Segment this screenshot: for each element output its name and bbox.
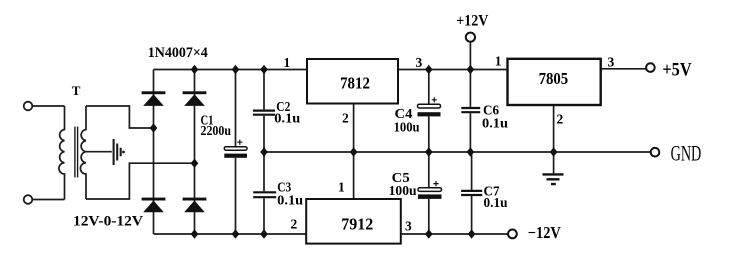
svg-text:1: 1 bbox=[338, 179, 345, 194]
dot center tap earth bbox=[122, 151, 125, 154]
capacitor C3 plates bbox=[253, 192, 276, 197]
svg-text:7812: 7812 bbox=[340, 74, 370, 93]
svg-text:7805: 7805 bbox=[539, 69, 569, 88]
regulator U1 7812 box bbox=[307, 59, 398, 104]
capacitor C7 plates bbox=[461, 191, 482, 195]
wire primary bottom bbox=[32, 199, 64, 201]
junction dots top rail bbox=[191, 65, 475, 74]
regulator U3 7805 box bbox=[508, 59, 601, 105]
diode D2 bridge right top bbox=[183, 91, 207, 106]
wire center tap bbox=[86, 151, 112, 153]
svg-text:1N4007×4: 1N4007×4 bbox=[148, 45, 208, 61]
svg-text:0.1u: 0.1u bbox=[484, 195, 508, 210]
wire top rail middle bbox=[398, 69, 508, 71]
capacitor C1 electrolytic plates bbox=[224, 140, 247, 158]
wire primary top bbox=[32, 105, 64, 107]
transformer T primary winding bbox=[59, 106, 65, 200]
wire C4 branch bbox=[428, 70, 430, 153]
ground symbol under 7805 bbox=[543, 174, 564, 184]
svg-text:0.1u: 0.1u bbox=[277, 193, 304, 208]
capacitor C2 plates bbox=[253, 111, 275, 115]
svg-text:GND: GND bbox=[671, 141, 702, 166]
diode D1 bridge left top bbox=[142, 91, 166, 106]
svg-text:3: 3 bbox=[405, 218, 412, 233]
wire C7 branch bbox=[471, 152, 473, 234]
terminal +12V circle bbox=[466, 33, 475, 42]
wire C1 branch bbox=[235, 70, 237, 235]
junction dots bottom rail bbox=[191, 229, 476, 238]
ground symbol stub bbox=[553, 152, 555, 173]
svg-text:3: 3 bbox=[608, 55, 615, 70]
svg-text:100u: 100u bbox=[394, 119, 420, 134]
transformer T primary terminal bottom bbox=[24, 195, 33, 204]
svg-text:0.1u: 0.1u bbox=[482, 116, 509, 131]
wire bottom rail left bbox=[154, 233, 307, 235]
svg-text:2: 2 bbox=[557, 111, 564, 126]
capacitor C4 electrolytic plates bbox=[418, 97, 441, 116]
svg-text:2: 2 bbox=[342, 111, 349, 126]
junction dot node AC2 bbox=[191, 159, 199, 168]
wire top rail left bbox=[154, 69, 308, 71]
terminal GND circle bbox=[651, 148, 660, 157]
svg-text:−12V: −12V bbox=[528, 223, 561, 242]
wire secondary top to bridge AC1 bbox=[86, 106, 154, 128]
wire +12V terminal stub and C6 branch bbox=[469, 42, 471, 152]
wire bridge right column bbox=[194, 70, 196, 235]
wire top rail right to +5V bbox=[601, 68, 646, 70]
transformer T core bbox=[75, 127, 78, 178]
transformer T primary terminal top bbox=[24, 102, 33, 111]
wire bottom rail right bbox=[401, 233, 508, 235]
svg-text:+12V: +12V bbox=[456, 13, 489, 30]
terminal +5V circle bbox=[646, 63, 655, 72]
svg-text:+5V: +5V bbox=[662, 61, 692, 81]
svg-text:100u: 100u bbox=[389, 183, 417, 198]
svg-text:1: 1 bbox=[284, 55, 291, 70]
svg-text:7912: 7912 bbox=[341, 215, 373, 234]
svg-text:2200u: 2200u bbox=[201, 123, 232, 138]
diode D3 bridge left bottom bbox=[142, 198, 166, 213]
svg-text:1: 1 bbox=[495, 53, 502, 68]
wire 7805 pin2 to GND rail bbox=[553, 105, 555, 152]
earth symbol center tap bbox=[114, 139, 121, 165]
wire C5 branch bbox=[428, 152, 430, 234]
svg-text:T: T bbox=[72, 83, 81, 98]
regulator U2 7912 box bbox=[306, 199, 401, 244]
capacitor C5 electrolytic plates bbox=[418, 181, 442, 199]
svg-text:0.1u: 0.1u bbox=[274, 111, 301, 126]
junction dots mid GND rail bbox=[260, 147, 557, 156]
wire secondary bottom to bridge AC2 bbox=[86, 163, 195, 199]
wire mid GND rail bbox=[264, 151, 650, 153]
wire bridge left column bbox=[153, 70, 155, 235]
transformer T secondary winding bbox=[80, 106, 86, 199]
svg-text:2: 2 bbox=[291, 216, 298, 231]
wire 7912 pin1 from GND rail bbox=[353, 152, 355, 199]
svg-text:3: 3 bbox=[416, 55, 423, 70]
capacitor C6 plates bbox=[461, 108, 480, 112]
terminal -12V circle bbox=[508, 230, 517, 239]
diode D4 bridge right bottom bbox=[183, 198, 207, 213]
junction dot node AC1 bbox=[150, 123, 158, 132]
wire 7812 pin2 to GND rail bbox=[353, 104, 355, 153]
wire C2/C3 branch bbox=[263, 70, 265, 235]
svg-text:12V-0-12V: 12V-0-12V bbox=[73, 214, 143, 230]
